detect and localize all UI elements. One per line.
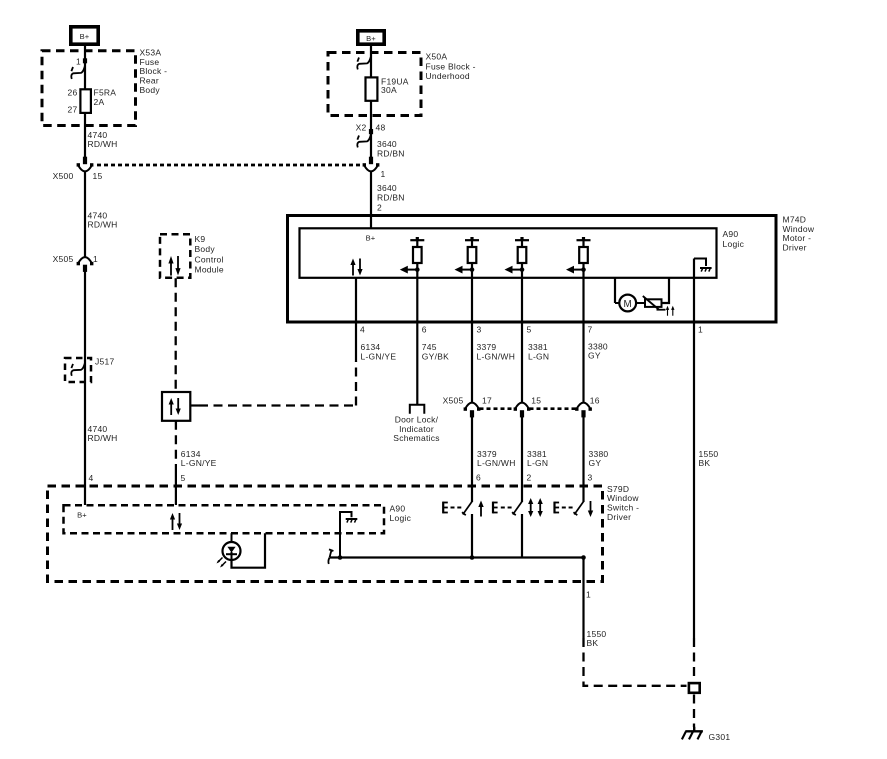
switch 1 blade xyxy=(462,501,472,515)
battery feed B+ (middle) xyxy=(358,31,384,44)
svg-text:Logic: Logic xyxy=(723,239,745,249)
svg-text:RD/BN: RD/BN xyxy=(377,192,405,202)
wire motor to position sensor xyxy=(636,302,645,304)
svg-text:X505: X505 xyxy=(53,254,74,264)
svg-text:Driver: Driver xyxy=(783,243,807,253)
A90 logic label module xyxy=(723,229,745,249)
svg-text:B+: B+ xyxy=(366,34,376,43)
wire pin 5 xyxy=(521,278,523,403)
svg-text:BK: BK xyxy=(699,458,711,468)
fuse F19UA 30A xyxy=(366,76,409,101)
dashed wire interface to switch pin 5 xyxy=(175,421,177,464)
svg-text:L-GN/WH: L-GN/WH xyxy=(477,458,516,468)
svg-text:B+: B+ xyxy=(366,234,376,243)
switch 3 actuator dash xyxy=(562,507,573,509)
svg-text:2: 2 xyxy=(377,203,382,213)
svg-text:GY/BK: GY/BK xyxy=(422,351,449,361)
switch 2 blade xyxy=(512,501,522,515)
wire label 4740 RD/WH xyxy=(88,130,118,149)
svg-text:L-GN/YE: L-GN/YE xyxy=(181,458,217,468)
svg-text:1: 1 xyxy=(93,254,98,264)
svg-text:1: 1 xyxy=(586,590,591,600)
pin 1 marker X53A xyxy=(83,58,87,63)
wire pin 3 xyxy=(471,278,473,403)
svg-text:K9: K9 xyxy=(195,234,206,244)
clip terminal in J517 xyxy=(71,363,85,376)
wire to motor xyxy=(615,302,620,304)
ground G301 symbol xyxy=(682,727,703,740)
wire label 3380 GY xyxy=(588,341,608,360)
connector X505 pin 17 xyxy=(464,403,481,418)
svg-text:6: 6 xyxy=(476,473,481,483)
bus junction pin 6 xyxy=(470,555,475,560)
switch 3 E symbol xyxy=(555,502,560,514)
ground splice connector box xyxy=(689,683,700,693)
wire pin 7 xyxy=(582,278,584,403)
fuse block X53A box xyxy=(42,51,136,126)
switch 1 bottom stub xyxy=(471,514,473,558)
window logic interface box xyxy=(162,392,190,421)
wire label 1550 BK right xyxy=(699,449,719,468)
driver output pin 5 xyxy=(505,237,530,278)
svg-text:6: 6 xyxy=(422,325,427,335)
svg-text:B+: B+ xyxy=(77,511,87,520)
svg-text:B+: B+ xyxy=(80,32,90,41)
dashed ground wire from module xyxy=(693,638,695,682)
wire pin 4 solid xyxy=(355,278,357,361)
svg-text:4: 4 xyxy=(360,325,365,335)
svg-text:3: 3 xyxy=(477,325,482,335)
internal ground symbol module xyxy=(700,268,712,272)
wire label 6134 L-GN/YE xyxy=(361,342,397,361)
svg-text:GY: GY xyxy=(588,351,601,361)
wire label 3381 L-GN xyxy=(528,342,549,361)
position sensor (variable resistor) xyxy=(643,296,666,310)
svg-text:3: 3 xyxy=(588,473,593,483)
connector X505 pin 15 xyxy=(514,403,531,418)
driver output pin 7 xyxy=(566,237,591,278)
dotted link pin15 to pin16 xyxy=(530,407,577,410)
svg-text:Body: Body xyxy=(140,85,161,95)
connector X505 pin 1 xyxy=(77,257,94,272)
svg-text:5: 5 xyxy=(527,325,532,335)
wire label 4740 RD/WH xyxy=(88,424,118,443)
wire switch pin 1 down xyxy=(582,558,584,639)
battery feed B+ (left) xyxy=(71,27,98,44)
K9 label xyxy=(195,234,224,275)
wire label 6134 L-GN/YE xyxy=(181,449,217,468)
M74D label xyxy=(783,215,815,253)
clip terminal in X50A xyxy=(357,57,371,70)
off-page fork to door lock schematics xyxy=(410,405,425,414)
svg-text:1: 1 xyxy=(76,57,81,67)
svg-text:BK: BK xyxy=(587,638,599,648)
svg-text:RD/WH: RD/WH xyxy=(88,139,118,149)
clip terminal in X53A xyxy=(71,66,85,79)
wire X505-16 to switch xyxy=(582,416,584,502)
fuse block X50A box xyxy=(328,53,421,116)
wire module ground pin 1 xyxy=(693,259,695,639)
stub from interface box xyxy=(190,404,199,406)
switch 1 actuator dash xyxy=(451,507,462,509)
wire B+ to fuse block underhood xyxy=(370,46,372,157)
S79D label xyxy=(607,484,639,522)
switch 3 down arrow xyxy=(588,501,593,517)
wire label 4740 RD/WH xyxy=(88,211,118,230)
svg-text:15: 15 xyxy=(93,171,103,181)
svg-text:RD/WH: RD/WH xyxy=(88,220,118,230)
wire X505-15 to switch xyxy=(521,416,523,502)
connector X2 pin 48 xyxy=(356,123,386,135)
wire B+ to fuse block rear xyxy=(84,46,86,157)
svg-text:2A: 2A xyxy=(94,97,105,107)
wire label 3379 L-GN/WH xyxy=(477,449,516,468)
switch 3 blade xyxy=(574,501,584,515)
up/down arrows module logic xyxy=(350,259,362,276)
bus junction at ground xyxy=(338,555,343,560)
indicator LED drop xyxy=(231,533,233,548)
switch 1 up arrow xyxy=(478,501,483,517)
wire label 3640 RD/BN xyxy=(377,183,405,202)
svg-text:X500: X500 xyxy=(53,171,74,181)
indicator LED lamp xyxy=(223,542,241,560)
bus clip terminal xyxy=(328,549,333,564)
wire label 1550 BK left xyxy=(587,629,607,648)
svg-text:L-GN: L-GN xyxy=(528,351,549,361)
svg-text:Underhood: Underhood xyxy=(426,71,470,81)
svg-text:X50A: X50A xyxy=(426,52,448,62)
svg-text:1: 1 xyxy=(698,325,703,335)
A90 logic label switch xyxy=(390,504,412,524)
svg-text:15: 15 xyxy=(531,395,541,405)
door lock schematics label xyxy=(393,415,439,444)
switch 2 actuator dash xyxy=(501,507,514,509)
wire label 3640 RD/BN xyxy=(377,139,405,158)
svg-text:GY: GY xyxy=(589,458,602,468)
sensor signal arrows xyxy=(666,306,675,316)
motor feed drop left xyxy=(614,278,616,303)
svg-text:X2: X2 xyxy=(356,123,367,133)
switch 2 bottom stub xyxy=(521,514,523,558)
module pin labels xyxy=(360,325,703,335)
wire into switch pin 5 xyxy=(175,464,177,505)
svg-text:Fuse Block -: Fuse Block - xyxy=(426,61,476,71)
svg-text:L-GN/WH: L-GN/WH xyxy=(477,351,516,361)
dashed wire interface box to module pin 4 xyxy=(199,404,356,406)
A90 logic box in switch xyxy=(64,505,385,533)
dotted interconnect X500 to X50A branch xyxy=(97,164,363,167)
svg-text:4: 4 xyxy=(89,473,94,483)
svg-text:L-GN: L-GN xyxy=(527,458,548,468)
body control module K9 box xyxy=(160,234,190,277)
svg-text:A90: A90 xyxy=(723,229,739,239)
svg-text:17: 17 xyxy=(482,395,492,405)
dashed wire K9 to logic box xyxy=(175,278,177,392)
svg-text:26: 26 xyxy=(68,88,78,98)
driver output pin 6 xyxy=(400,237,425,278)
svg-text:Logic: Logic xyxy=(390,513,412,523)
svg-text:2: 2 xyxy=(527,473,532,483)
svg-text:7: 7 xyxy=(588,325,593,335)
wire sensor up right xyxy=(662,278,670,303)
svg-text:J517: J517 xyxy=(95,357,114,367)
svg-text:27: 27 xyxy=(68,105,78,115)
X53A label xyxy=(140,47,168,95)
switch 1 E symbol xyxy=(443,502,448,514)
svg-text:M: M xyxy=(623,299,631,310)
svg-text:X505: X505 xyxy=(443,395,464,405)
svg-text:RD/BN: RD/BN xyxy=(377,148,405,158)
up/down arrows in interface box xyxy=(169,398,181,415)
wire label 3380 GY xyxy=(589,449,609,468)
svg-text:1: 1 xyxy=(381,169,386,179)
svg-text:48: 48 xyxy=(376,123,386,133)
svg-text:Control: Control xyxy=(195,254,224,264)
internal ground hook module xyxy=(694,259,706,267)
svg-text:Module: Module xyxy=(195,265,224,275)
svg-text:F5RA: F5RA xyxy=(94,88,117,98)
motor M xyxy=(619,295,636,312)
wire X505-17 to switch xyxy=(471,416,473,502)
window motor module M74D box xyxy=(288,216,777,323)
LED return loop xyxy=(232,533,266,568)
wire pin 6 xyxy=(416,278,418,405)
internal ground wire switch xyxy=(340,512,352,558)
dashed wire to ground G301 xyxy=(693,695,695,728)
dashed ground wire from switch xyxy=(584,638,687,686)
in-line connector pin 1 xyxy=(363,157,380,172)
svg-text:Driver: Driver xyxy=(607,512,631,522)
window switch S79D box xyxy=(48,486,603,582)
up/down arrows switch logic xyxy=(170,513,182,530)
svg-text:A90: A90 xyxy=(390,504,406,514)
LED light rays xyxy=(217,558,227,568)
up/down arrows in K9 xyxy=(168,256,180,276)
svg-text:16: 16 xyxy=(590,395,600,405)
wire into module B+ xyxy=(370,172,372,229)
bus junction pin 3 xyxy=(581,555,586,560)
connector X500 pin 15 xyxy=(77,157,94,172)
connector X505 pin 16 xyxy=(575,403,592,418)
svg-text:Schematics: Schematics xyxy=(393,433,439,443)
dashed wire riser to module pin 4 xyxy=(355,361,357,406)
internal ground symbol switch xyxy=(346,519,358,523)
wire label 3379 L-GN/WH xyxy=(477,342,516,361)
svg-text:Body: Body xyxy=(195,244,216,254)
wire X505 to switch xyxy=(84,271,86,505)
A90 logic box in module xyxy=(300,228,717,277)
X50A label xyxy=(426,52,476,81)
wire X500 to X505 xyxy=(84,172,86,257)
svg-text:G301: G301 xyxy=(709,732,731,742)
switch common bus xyxy=(330,556,584,558)
svg-text:L-GN/YE: L-GN/YE xyxy=(361,351,397,361)
svg-text:30A: 30A xyxy=(381,85,397,95)
dotted link pin17 to pin15 xyxy=(480,407,516,410)
svg-text:5: 5 xyxy=(181,473,186,483)
switch 2 E symbol xyxy=(493,502,498,514)
svg-text:RD/WH: RD/WH xyxy=(88,433,118,443)
driver output pin 3 xyxy=(455,237,480,278)
switch 2 up/down arrows xyxy=(528,498,543,517)
wire label 745 GY/BK xyxy=(422,342,449,361)
clip terminal below X2 xyxy=(357,135,371,148)
fuse F5RA 2A xyxy=(68,88,117,115)
splice J517 box xyxy=(65,358,91,382)
wire label 3381 L-GN xyxy=(527,449,548,468)
